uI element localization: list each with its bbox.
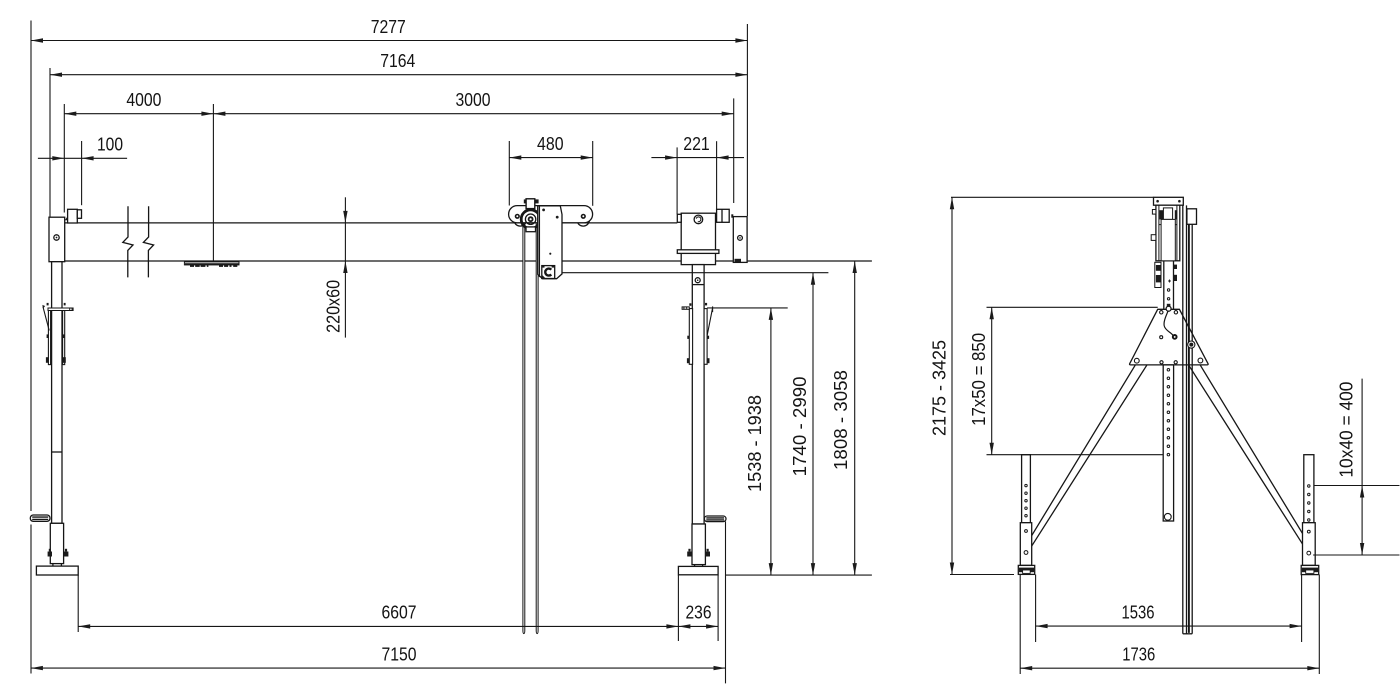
svg-text:2175 - 3425: 2175 - 3425	[929, 340, 950, 436]
break mark left	[123, 206, 133, 277]
extension line 236 right	[717, 575, 719, 641]
dimension 480	[509, 133, 592, 160]
trolley small wheels	[516, 215, 586, 219]
guide rail	[1183, 205, 1192, 633]
dimension 6607	[78, 602, 678, 629]
side top reference line	[951, 196, 1154, 198]
side 17x50 bottom reference line	[987, 454, 1164, 456]
dimension 10x40=400	[1336, 379, 1365, 555]
side left foot	[1018, 565, 1034, 574]
extension line far left	[30, 21, 32, 512]
extension line 3000 right	[733, 98, 735, 203]
right top bracket	[717, 209, 734, 222]
trolley drive wheel	[521, 210, 540, 229]
winch flange plate	[677, 250, 719, 254]
serrated rack under beam	[184, 262, 239, 267]
svg-text:7277: 7277	[371, 16, 406, 37]
extension line 221 right	[716, 141, 718, 209]
extension line 100 right	[81, 141, 83, 205]
trolley top hook	[524, 199, 539, 209]
left top bracket	[65, 209, 82, 223]
extension line 7164 left	[49, 68, 51, 217]
svg-text:1808 - 3058: 1808 - 3058	[830, 370, 851, 470]
dimension 1736	[1020, 644, 1319, 671]
break mark right	[143, 206, 153, 277]
svg-text:1740 - 2990: 1740 - 2990	[789, 376, 810, 476]
side 10x40 bottom reference line	[1313, 554, 1399, 556]
left column lower sleeve	[48, 523, 69, 566]
beam girder	[65, 223, 872, 261]
dimension 17x50=850	[968, 307, 994, 454]
side extension 1736 left	[1019, 575, 1021, 675]
svg-text:3000: 3000	[456, 89, 491, 110]
extension line 480 right	[592, 141, 594, 206]
dimension 100	[38, 134, 127, 161]
right column	[692, 265, 704, 524]
svg-text:7150: 7150	[382, 643, 417, 664]
mast hole bar	[1163, 365, 1173, 521]
trolley cross bar	[509, 206, 593, 223]
dimension 3000	[213, 89, 733, 116]
beam end plate	[733, 217, 747, 263]
trolley brake pad	[526, 227, 536, 232]
extension line 221 left	[676, 147, 678, 214]
svg-text:236: 236	[686, 602, 712, 623]
extension line 4000 left	[63, 104, 65, 213]
dimension 1740-2990	[789, 273, 815, 575]
left foot plate	[36, 566, 78, 575]
ground reference line right	[726, 574, 872, 576]
side mast clamp	[1155, 262, 1177, 287]
left column	[52, 262, 62, 524]
svg-text:480: 480	[537, 133, 564, 154]
side extension 1536 left	[1035, 575, 1037, 643]
trolley wheel bumps	[514, 214, 590, 227]
gusset triangle plate	[1130, 304, 1209, 365]
right foot plate	[678, 566, 718, 574]
dimension 7277	[31, 16, 747, 43]
dimension 7164	[50, 50, 747, 77]
svg-text:6607: 6607	[382, 602, 417, 623]
dimension 2175-3425	[929, 197, 955, 574]
hook housing block	[542, 266, 555, 279]
side 17x50 top reference line	[987, 306, 1158, 308]
side ground reference line left	[950, 574, 1014, 576]
side right foot	[1301, 565, 1319, 574]
dimension 1808-3058	[830, 261, 857, 575]
right column clamp	[682, 303, 713, 364]
dimension 7150	[31, 643, 726, 670]
hook height reference line	[562, 272, 829, 274]
extension line 480 left	[508, 141, 510, 206]
winch box right column	[677, 213, 715, 264]
extension line 7277 right	[746, 24, 748, 216]
dimension 1536	[1036, 601, 1302, 628]
svg-text:1538 - 1938: 1538 - 1938	[744, 395, 765, 492]
svg-text:100: 100	[97, 134, 123, 155]
svg-text:17x50 = 850: 17x50 = 850	[968, 333, 989, 426]
extension line 7150 right	[725, 522, 727, 684]
hoist body	[538, 206, 562, 279]
side 10x40 top reference line	[1314, 485, 1400, 487]
side extension 1736 right	[1318, 575, 1320, 675]
extension line 4000/3000 divider	[212, 104, 214, 261]
side extension 1536 right	[1301, 575, 1303, 643]
dimension 236	[678, 602, 718, 629]
svg-text:1736: 1736	[1122, 644, 1155, 665]
right serrated clamp block	[704, 516, 726, 522]
dimension 4000	[64, 89, 213, 116]
svg-text:220x60: 220x60	[323, 280, 344, 333]
extension line 6607 left	[77, 575, 79, 632]
clamp height reference line	[707, 307, 788, 309]
right column lower sleeve	[687, 524, 710, 566]
dimension 221	[651, 133, 744, 160]
svg-text:4000: 4000	[126, 89, 161, 110]
dimension 220x60	[323, 197, 348, 337]
side view legs	[1023, 365, 1313, 550]
side left post	[1020, 455, 1031, 566]
lifting fork tines	[523, 223, 538, 634]
side trolley assembly	[1151, 197, 1196, 260]
svg-text:221: 221	[683, 133, 710, 154]
extension line 236 left	[677, 575, 679, 641]
gusset big bolt	[1188, 341, 1195, 348]
left end carriage box	[49, 217, 65, 262]
left column clamp	[42, 303, 73, 365]
svg-text:1536: 1536	[1122, 601, 1155, 622]
left serrated clamp block	[30, 515, 50, 521]
side right post	[1303, 455, 1316, 566]
svg-text:7164: 7164	[380, 50, 415, 71]
svg-text:10x40 = 400: 10x40 = 400	[1336, 382, 1357, 478]
side view mast upper	[1164, 261, 1174, 310]
dimension 1538-1938	[744, 308, 773, 575]
